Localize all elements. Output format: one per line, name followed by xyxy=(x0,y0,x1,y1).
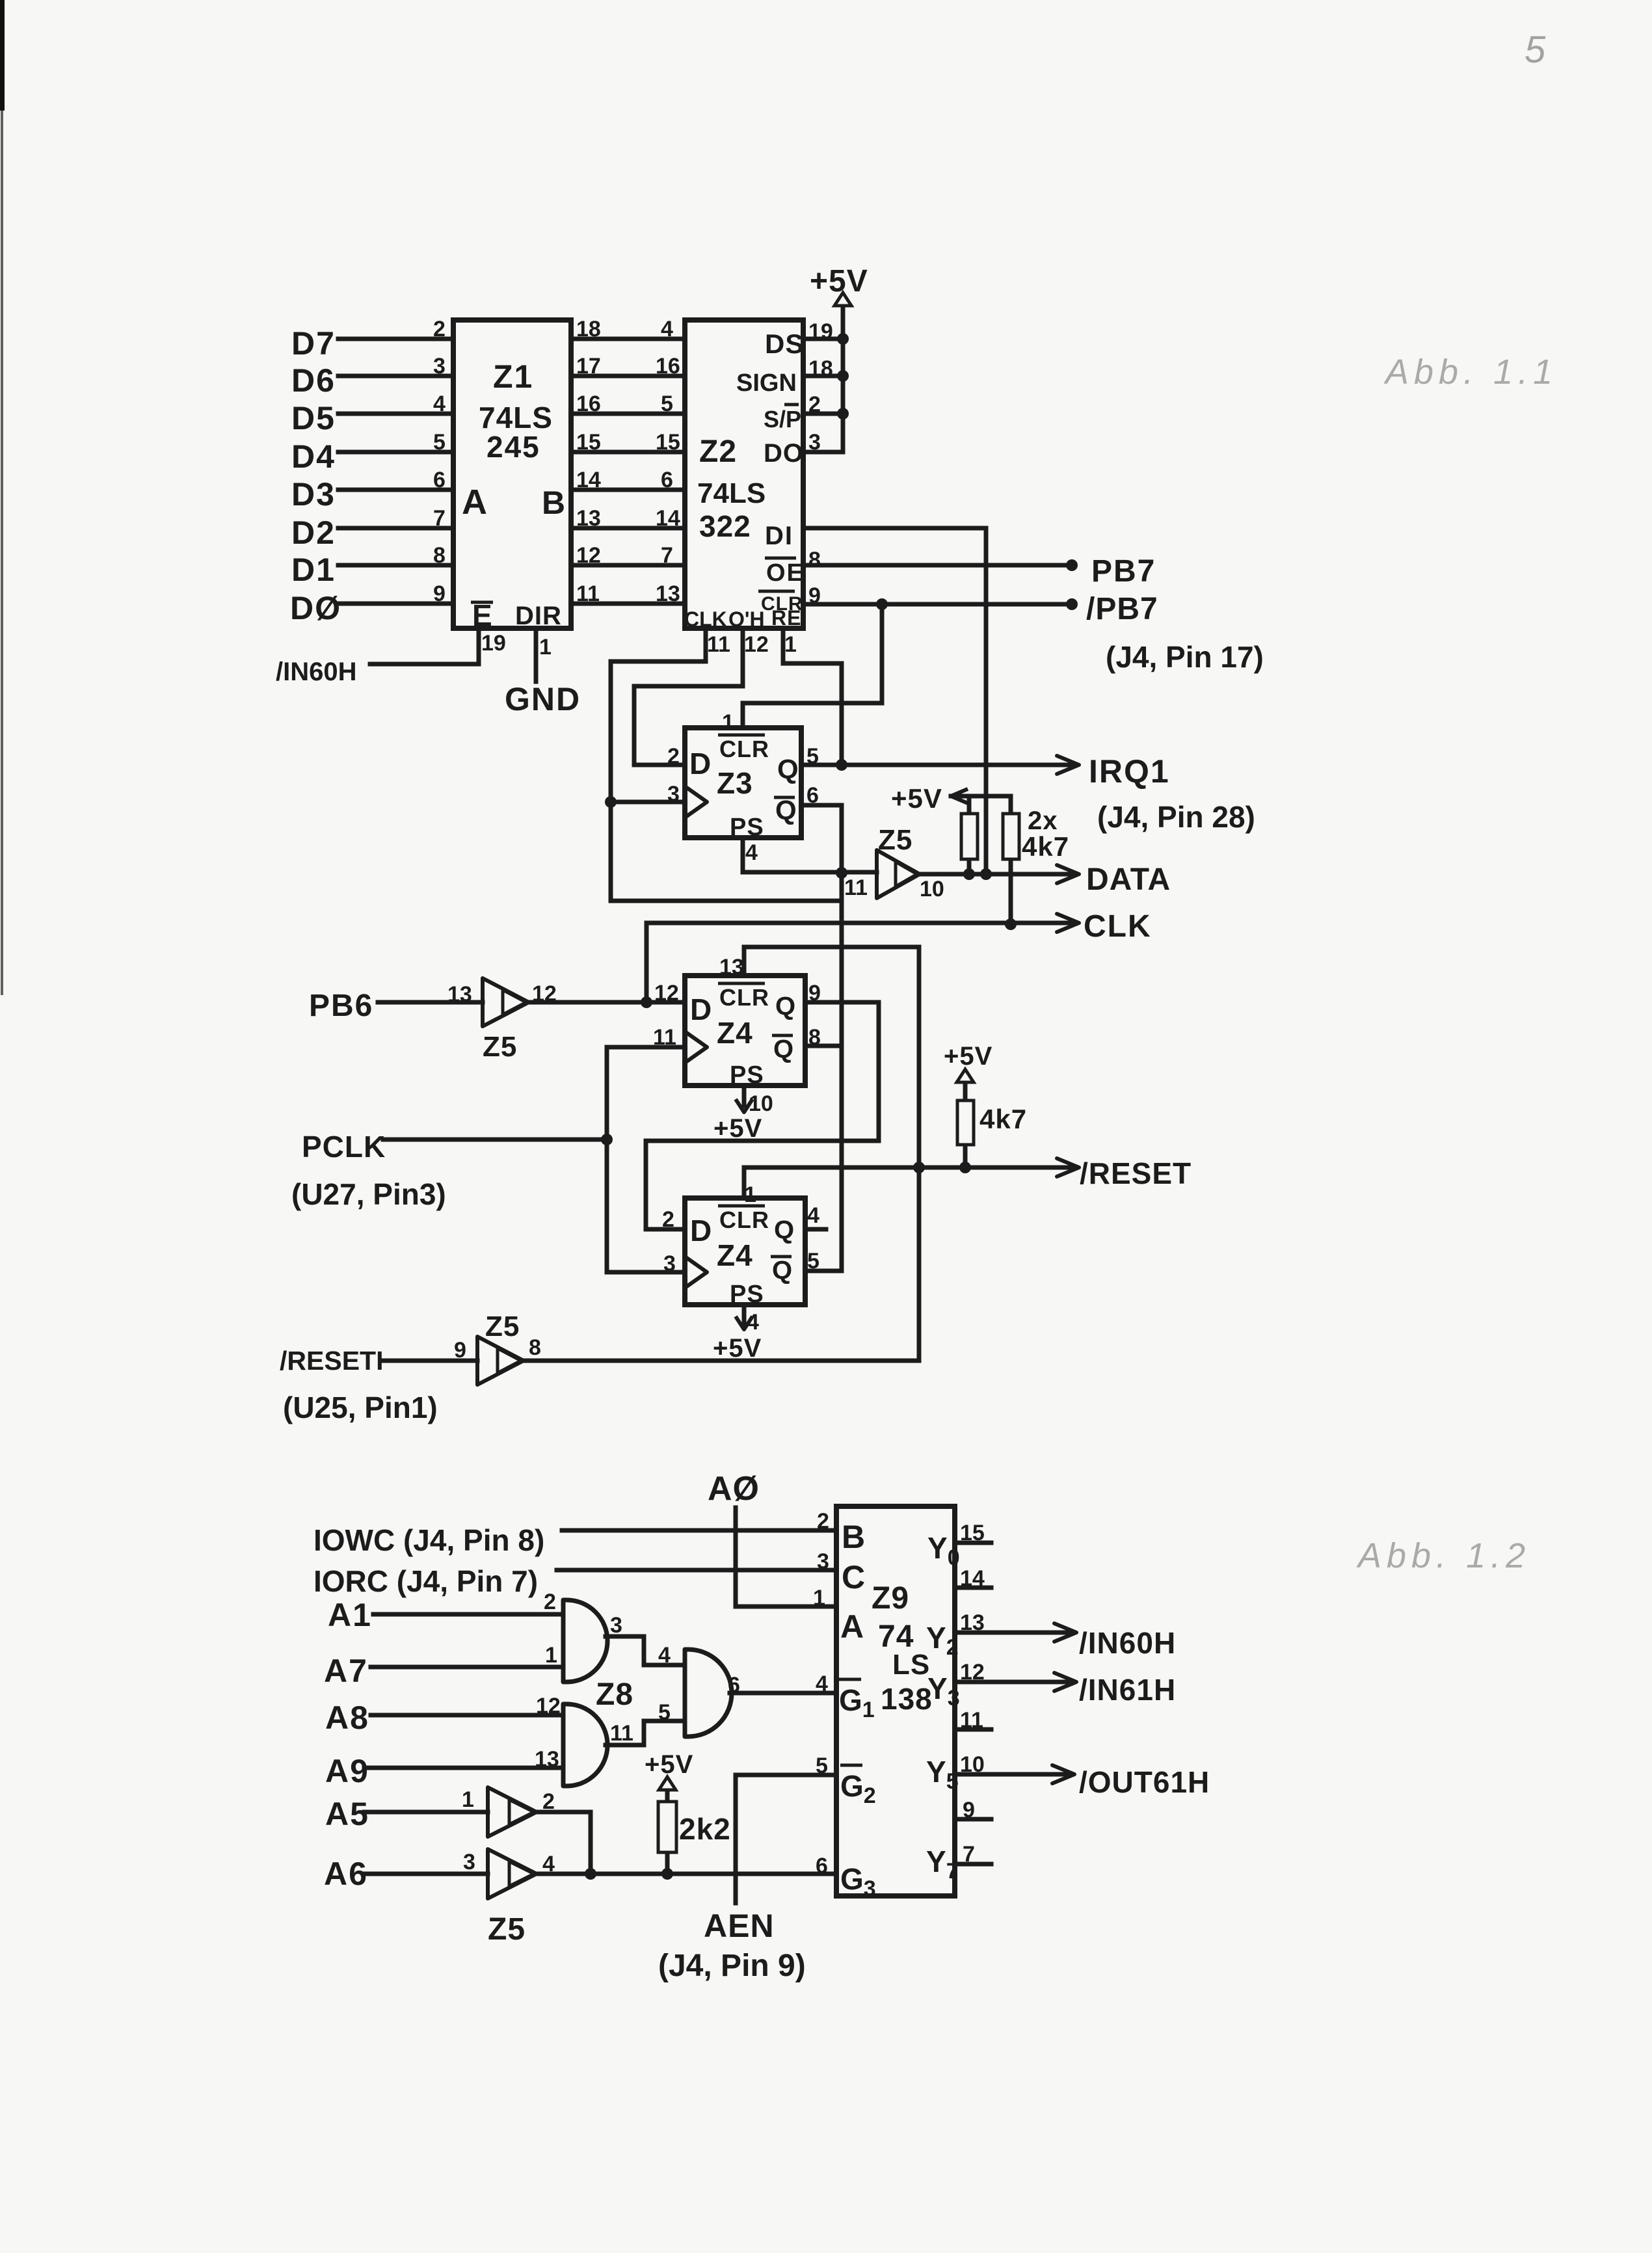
svg-text:(U27, Pin3): (U27, Pin3) xyxy=(291,1177,446,1211)
svg-text:11: 11 xyxy=(707,632,730,657)
svg-text:18: 18 xyxy=(808,356,833,381)
svg-text:DATA: DATA xyxy=(1086,862,1171,897)
svg-text:Z5: Z5 xyxy=(485,1311,520,1342)
svg-text:5: 5 xyxy=(661,392,673,416)
svg-text:D5: D5 xyxy=(291,400,336,436)
svg-text:13: 13 xyxy=(719,955,744,980)
svg-text:+5V: +5V xyxy=(713,1114,762,1143)
svg-text:1: 1 xyxy=(784,632,797,657)
svg-text:PS: PS xyxy=(730,1061,764,1089)
svg-text:3: 3 xyxy=(817,1549,829,1574)
svg-text:DØ: DØ xyxy=(290,590,341,626)
svg-text:1: 1 xyxy=(744,1182,756,1207)
svg-text:13: 13 xyxy=(576,506,601,531)
svg-text:5: 5 xyxy=(658,1700,671,1725)
svg-text:3: 3 xyxy=(808,430,821,455)
svg-text:RE: RE xyxy=(771,606,801,630)
svg-text:Z4: Z4 xyxy=(717,1238,753,1272)
svg-text:74LS: 74LS xyxy=(697,477,766,509)
svg-text:7: 7 xyxy=(963,1842,975,1867)
svg-text:AEN: AEN xyxy=(704,1908,775,1944)
svg-text:1: 1 xyxy=(545,1643,557,1668)
svg-text:PCLK: PCLK xyxy=(302,1130,386,1164)
svg-text:2k2: 2k2 xyxy=(679,1812,731,1846)
svg-text:11: 11 xyxy=(576,581,600,606)
svg-text:13: 13 xyxy=(447,982,472,1007)
svg-text:2: 2 xyxy=(808,392,821,417)
svg-text:4: 4 xyxy=(542,1852,555,1876)
svg-text:19: 19 xyxy=(481,631,506,656)
svg-text:D2: D2 xyxy=(291,514,336,551)
svg-text:11: 11 xyxy=(653,1025,676,1050)
svg-text:17: 17 xyxy=(576,354,601,379)
svg-text:A1: A1 xyxy=(328,1597,372,1633)
svg-text:A: A xyxy=(462,483,487,522)
svg-text:/IN61H: /IN61H xyxy=(1079,1673,1176,1707)
svg-text:10: 10 xyxy=(960,1752,985,1777)
svg-text:Z5: Z5 xyxy=(483,1031,517,1063)
svg-text:4: 4 xyxy=(745,840,758,865)
svg-text:9: 9 xyxy=(963,1798,975,1822)
svg-text:5: 5 xyxy=(1525,29,1546,71)
svg-text:12: 12 xyxy=(576,543,601,568)
svg-text:14: 14 xyxy=(960,1566,985,1591)
svg-text:Z8: Z8 xyxy=(596,1677,633,1712)
svg-text:2: 2 xyxy=(667,744,680,769)
svg-text:15: 15 xyxy=(960,1521,985,1545)
svg-text:PS: PS xyxy=(730,1281,764,1308)
svg-text:11: 11 xyxy=(960,1708,983,1733)
svg-text:PB6: PB6 xyxy=(309,989,373,1023)
svg-text:15: 15 xyxy=(576,430,601,455)
svg-text:IOWC (J4, Pin 8): IOWC (J4, Pin 8) xyxy=(313,1523,544,1557)
svg-text:18: 18 xyxy=(576,317,601,341)
svg-text:Q: Q xyxy=(775,992,795,1020)
svg-text:D7: D7 xyxy=(291,325,336,362)
svg-text:7: 7 xyxy=(433,506,446,531)
svg-text:Z9: Z9 xyxy=(872,1581,909,1616)
svg-text:/IN60H: /IN60H xyxy=(276,658,357,686)
svg-text:Q: Q xyxy=(773,1035,793,1063)
svg-text:4k7: 4k7 xyxy=(979,1104,1027,1134)
svg-text:A6: A6 xyxy=(324,1856,368,1892)
svg-text:A: A xyxy=(840,1608,864,1645)
svg-text:B: B xyxy=(542,485,565,521)
svg-text:6: 6 xyxy=(806,783,819,808)
svg-text:6: 6 xyxy=(433,468,446,492)
svg-text:Q: Q xyxy=(775,795,797,825)
svg-text:2: 2 xyxy=(433,317,446,341)
svg-text:OE: OE xyxy=(766,559,805,587)
svg-text:5: 5 xyxy=(807,1249,819,1273)
svg-text:C: C xyxy=(842,1559,865,1595)
svg-text:+5V: +5V xyxy=(810,264,868,299)
svg-text:Z2: Z2 xyxy=(699,434,737,469)
svg-text:16: 16 xyxy=(576,392,601,416)
svg-text:Z5: Z5 xyxy=(878,824,913,856)
svg-text:8: 8 xyxy=(808,548,821,572)
svg-text:Z4: Z4 xyxy=(717,1016,753,1050)
svg-text:1: 1 xyxy=(539,635,552,660)
svg-text:4: 4 xyxy=(433,392,446,416)
svg-text:8: 8 xyxy=(433,543,446,568)
svg-text:E: E xyxy=(472,598,492,632)
svg-text:/RESETI: /RESETI xyxy=(280,1346,383,1376)
svg-text:10: 10 xyxy=(920,877,944,901)
svg-text:A8: A8 xyxy=(325,1700,369,1736)
svg-text:3: 3 xyxy=(667,782,680,807)
svg-text:/PB7: /PB7 xyxy=(1086,592,1158,626)
svg-text:+5V: +5V xyxy=(944,1042,993,1071)
svg-text:3: 3 xyxy=(463,1850,475,1874)
svg-text:DI: DI xyxy=(765,522,793,550)
svg-text:245: 245 xyxy=(486,430,540,464)
svg-text:+5V: +5V xyxy=(645,1750,693,1779)
svg-text:Abb. 1.2: Abb. 1.2 xyxy=(1356,1536,1530,1575)
svg-text:A5: A5 xyxy=(325,1796,369,1832)
svg-text:Abb. 1.1: Abb. 1.1 xyxy=(1383,353,1558,392)
svg-text:16: 16 xyxy=(656,354,680,379)
svg-text:CLK: CLK xyxy=(1084,909,1152,944)
svg-text:19: 19 xyxy=(808,319,833,344)
svg-text:4: 4 xyxy=(816,1672,828,1696)
svg-text:9: 9 xyxy=(454,1338,466,1363)
svg-text:A7: A7 xyxy=(324,1653,368,1689)
svg-text:12: 12 xyxy=(960,1660,985,1685)
svg-text:3: 3 xyxy=(663,1251,676,1276)
svg-text:Q: Q xyxy=(772,1256,792,1285)
svg-text:2: 2 xyxy=(662,1207,674,1232)
svg-text:6: 6 xyxy=(816,1854,828,1878)
svg-text:B: B xyxy=(842,1519,865,1555)
svg-text:2: 2 xyxy=(544,1590,556,1614)
svg-text:CLR: CLR xyxy=(719,984,769,1011)
svg-text:DS: DS xyxy=(765,328,804,359)
svg-text:10: 10 xyxy=(749,1091,773,1116)
svg-text:CLK: CLK xyxy=(684,607,727,631)
svg-text:13: 13 xyxy=(535,1747,559,1772)
svg-text:3: 3 xyxy=(610,1613,622,1638)
svg-text:4: 4 xyxy=(661,317,673,341)
svg-text:A9: A9 xyxy=(325,1753,369,1789)
svg-text:D: D xyxy=(690,993,712,1026)
svg-text:(J4, Pin 9): (J4, Pin 9) xyxy=(658,1949,806,1983)
svg-text:AØ: AØ xyxy=(708,1470,760,1508)
svg-text:5: 5 xyxy=(816,1753,828,1778)
svg-text:S/P: S/P xyxy=(764,406,801,433)
svg-text:D: D xyxy=(690,1214,712,1247)
svg-text:2: 2 xyxy=(817,1509,829,1534)
svg-text:CLR: CLR xyxy=(719,1206,769,1233)
svg-text:D1: D1 xyxy=(291,552,336,588)
svg-text:11: 11 xyxy=(844,875,868,900)
svg-text:8: 8 xyxy=(808,1025,821,1050)
svg-text:4: 4 xyxy=(807,1203,819,1228)
svg-text:(J4, Pin 17): (J4, Pin 17) xyxy=(1106,640,1264,674)
svg-text:1: 1 xyxy=(722,710,734,735)
svg-text:PB7: PB7 xyxy=(1091,554,1156,589)
svg-text:4: 4 xyxy=(747,1310,759,1335)
svg-text:IORC (J4, Pin 7): IORC (J4, Pin 7) xyxy=(313,1564,538,1598)
svg-text:/RESET: /RESET xyxy=(1080,1156,1192,1190)
svg-text:/OUT61H: /OUT61H xyxy=(1079,1765,1210,1799)
svg-text:9: 9 xyxy=(433,581,446,606)
svg-text:Z5: Z5 xyxy=(488,1912,526,1947)
svg-text:5: 5 xyxy=(433,430,446,455)
svg-text:12: 12 xyxy=(532,981,557,1006)
svg-text:7: 7 xyxy=(661,543,673,568)
svg-text:13: 13 xyxy=(960,1610,985,1635)
svg-text:1: 1 xyxy=(462,1787,474,1812)
svg-text:CLR: CLR xyxy=(719,736,769,762)
svg-text:9: 9 xyxy=(808,583,821,608)
svg-text:14: 14 xyxy=(656,506,680,531)
svg-text:SIGN: SIGN xyxy=(736,369,797,397)
svg-text:/IN60H: /IN60H xyxy=(1079,1626,1176,1660)
svg-text:Q: Q xyxy=(777,754,799,784)
svg-text:6: 6 xyxy=(661,468,673,492)
svg-text:D: D xyxy=(689,747,711,780)
svg-text:13: 13 xyxy=(656,581,680,606)
svg-text:1: 1 xyxy=(813,1586,825,1610)
svg-text:4k7: 4k7 xyxy=(1022,831,1069,862)
svg-text:12: 12 xyxy=(654,981,679,1006)
svg-text:LS: LS xyxy=(892,1649,930,1681)
svg-text:5: 5 xyxy=(806,744,819,769)
svg-text:D4: D4 xyxy=(291,438,336,475)
svg-text:GND: GND xyxy=(505,681,581,717)
svg-text:322: 322 xyxy=(699,509,751,543)
svg-text:D3: D3 xyxy=(291,476,336,513)
svg-text:+5V: +5V xyxy=(713,1334,762,1363)
svg-text:2: 2 xyxy=(542,1789,555,1814)
svg-text:+5V: +5V xyxy=(891,783,942,814)
svg-text:3: 3 xyxy=(433,354,446,379)
svg-text:Z3: Z3 xyxy=(717,766,753,800)
svg-text:14: 14 xyxy=(576,468,601,492)
svg-text:12: 12 xyxy=(744,632,769,657)
svg-text:D6: D6 xyxy=(291,362,336,399)
svg-text:PS: PS xyxy=(730,814,764,841)
svg-text:9: 9 xyxy=(808,981,821,1006)
svg-text:11: 11 xyxy=(610,1721,633,1746)
svg-text:15: 15 xyxy=(656,430,680,455)
svg-text:DIR: DIR xyxy=(515,602,562,630)
svg-text:8: 8 xyxy=(529,1335,541,1360)
svg-text:Q: Q xyxy=(774,1216,794,1244)
svg-text:138: 138 xyxy=(881,1682,933,1716)
svg-text:Q'H: Q'H xyxy=(728,607,765,631)
svg-text:DO: DO xyxy=(764,439,804,468)
svg-text:(J4, Pin 28): (J4, Pin 28) xyxy=(1097,800,1255,834)
svg-text:IRQ1: IRQ1 xyxy=(1089,753,1170,790)
svg-text:Z1: Z1 xyxy=(493,358,533,395)
svg-text:12: 12 xyxy=(536,1694,561,1718)
svg-text:(U25, Pin1): (U25, Pin1) xyxy=(283,1391,438,1424)
svg-text:6: 6 xyxy=(728,1673,740,1698)
svg-text:4: 4 xyxy=(658,1643,671,1668)
